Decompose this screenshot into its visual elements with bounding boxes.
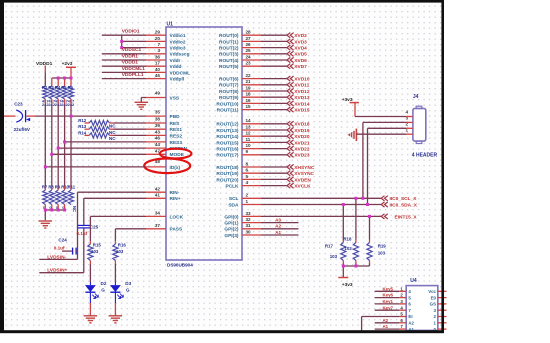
wire EINT15_X from GPI(0) <box>242 215 381 217</box>
U1 left pin numbers 35 38 39 43 46 44 47 48 42 41 34 37 <box>155 109 161 228</box>
wire XVSYNC <box>242 172 287 174</box>
svg-text:11: 11 <box>246 137 251 142</box>
net label A1 at U4 <box>383 324 389 329</box>
value NC of R11 vertical <box>72 206 77 212</box>
svg-text:XVD15: XVD15 <box>294 108 310 114</box>
svg-text:+2v3: +2v3 <box>62 61 73 67</box>
power symbol +2v3 bar <box>66 67 76 78</box>
R19 value 103 <box>378 250 386 255</box>
U1 left control pin stubs <box>146 116 166 229</box>
ground D2 <box>84 316 98 323</box>
svg-text:12: 12 <box>246 131 252 136</box>
svg-text:ROUT(15): ROUT(15) <box>216 140 239 146</box>
net label VDDSC1 <box>122 47 142 53</box>
net label IIC0_SDA_X <box>390 202 418 208</box>
resistor R4 <box>56 86 61 99</box>
svg-text:GPI(3): GPI(3) <box>224 233 239 239</box>
junction RISTEN column3 <box>57 147 60 150</box>
svg-text:4: 4 <box>405 110 408 115</box>
svg-text:NC: NC <box>109 124 116 129</box>
svg-text:18: 18 <box>246 92 252 97</box>
svg-text:DS90UB904: DS90UB904 <box>167 263 193 268</box>
svg-text:D2: D2 <box>101 281 107 286</box>
svg-text:GPI(1): GPI(1) <box>224 221 239 227</box>
svg-text:15: 15 <box>246 104 252 109</box>
svg-text:ROUT(6): ROUT(6) <box>219 77 239 83</box>
wire XVD4 <box>242 47 287 49</box>
svg-text:40: 40 <box>155 67 161 72</box>
U1 left power pin numbers 29 20 7 3 36 17 40 46 <box>155 30 161 78</box>
resistor R13 label <box>78 124 87 129</box>
chevron XVD22 <box>287 146 294 151</box>
net VDDD1 wire <box>102 65 146 67</box>
svg-text:XVDEN: XVDEN <box>294 177 311 183</box>
U4 left pin names 4 5 6 7 EI A2 A1 <box>408 289 414 332</box>
svg-text:ROUT(0): ROUT(0) <box>219 33 239 39</box>
svg-text:R13: R13 <box>78 124 87 129</box>
resistor R16 <box>113 244 118 261</box>
svg-text:A2: A2 <box>383 318 389 323</box>
wire XVD19 <box>242 129 287 131</box>
ground below R7-R10 <box>39 221 53 228</box>
svg-text:XVD6: XVD6 <box>294 58 307 64</box>
svg-text:Key6: Key6 <box>383 293 394 298</box>
svg-text:XVD4: XVD4 <box>294 46 307 52</box>
chevron XVSYNC <box>287 171 294 176</box>
wire IIC0_SCL_X <box>242 197 381 199</box>
power +2v3 label <box>62 61 73 67</box>
svg-text:XVD5: XVD5 <box>294 52 307 58</box>
wire PBD net from border through C23 <box>3 115 146 117</box>
wire XVD15 <box>242 109 287 111</box>
power VDDD1 label top-left <box>36 61 53 67</box>
ground D3 <box>109 316 123 323</box>
svg-text:RIN-: RIN- <box>170 190 180 196</box>
svg-text:ROUT(14): ROUT(14) <box>216 134 239 140</box>
chevron XVD4 <box>287 45 294 50</box>
wire XVD12 <box>242 90 287 92</box>
U4 left pin numbers 1-7 <box>400 286 403 329</box>
R16 value 103 <box>116 249 124 254</box>
wire XVD6 <box>242 59 287 61</box>
svg-text:23: 23 <box>246 61 252 66</box>
resistor R16 label <box>118 243 127 248</box>
svg-text:RES1: RES1 <box>170 127 183 133</box>
net label VDDD1 <box>122 60 139 66</box>
net label VDDR1 <box>122 53 139 59</box>
net label XVD5 <box>294 52 307 58</box>
U1 left pin names PBD RES RES1 RES2 RES3 RISTEN MODE ID(x) RIN- RIN+ LOCK PASS <box>170 114 188 233</box>
net VDDSC1 wire <box>102 53 146 55</box>
wire U4 pin 5 from bottom border <box>362 317 407 331</box>
wire MODE from column2 <box>52 153 146 155</box>
svg-text:XVSYNC: XVSYNC <box>294 171 314 177</box>
svg-text:8: 8 <box>246 161 249 166</box>
chevron XVD11 <box>287 82 294 87</box>
svg-text:R19: R19 <box>378 244 387 249</box>
svg-text:GPI(2): GPI(2) <box>224 227 239 233</box>
svg-text:4: 4 <box>246 180 249 185</box>
chevron XVD23 <box>287 152 294 157</box>
net label XHSYNC <box>294 165 315 171</box>
wire XHSYNC <box>242 166 287 168</box>
junction +2v3 bus dots <box>57 77 73 80</box>
svg-text:R15: R15 <box>93 243 102 248</box>
wire R17 to SDA <box>342 205 344 243</box>
svg-text:3: 3 <box>157 48 160 53</box>
net label XVD20 <box>294 134 310 140</box>
resistor R10 <box>62 190 67 205</box>
wire VSS <box>141 98 166 103</box>
wire IIC0_SDA_X <box>242 204 381 206</box>
wire R7-R10 bottom bus to ground <box>45 205 64 221</box>
svg-text:XVD7: XVD7 <box>294 64 307 70</box>
wire RIN+ vertical through C25 <box>84 198 146 272</box>
net label VDDCML1 <box>122 66 146 72</box>
wire RISTEN from column3 <box>58 147 146 149</box>
U1 right pin names GPI(0)-GPI(3) <box>224 214 239 239</box>
svg-text:J4: J4 <box>413 94 419 100</box>
junction bottom bus dots <box>44 209 66 212</box>
wire U4 pin Key6 row <box>375 297 407 299</box>
chevron XVD18 <box>287 121 294 126</box>
svg-text:35: 35 <box>155 109 161 114</box>
svg-text:XVD18: XVD18 <box>294 122 310 128</box>
connector J4 label <box>413 94 419 100</box>
svg-text:NC: NC <box>109 130 116 135</box>
svg-text:XVD19: XVD19 <box>294 128 310 134</box>
wire XVD3 <box>242 40 287 42</box>
svg-text:R4: R4 <box>55 85 61 90</box>
net label XVD18 <box>294 122 310 128</box>
svg-text:Vddpll: Vddpll <box>170 77 185 83</box>
wire XVD23 <box>242 154 287 156</box>
C23 value 22uf/6V <box>14 127 31 132</box>
svg-text:VDDD1: VDDD1 <box>122 60 139 66</box>
svg-text:U1: U1 <box>167 22 174 28</box>
svg-text:19: 19 <box>246 85 252 90</box>
net label XVD4 <box>294 46 307 52</box>
wire RES3 from column4 <box>65 141 146 143</box>
svg-text:0.1uf: 0.1uf <box>77 231 88 236</box>
wire XVD14 <box>242 102 287 104</box>
LED D2 label <box>101 281 107 286</box>
svg-text:13: 13 <box>246 124 252 129</box>
ground VSS <box>135 102 149 109</box>
svg-text:22uf/6V: 22uf/6V <box>14 127 31 132</box>
U1 right pin names SCL SDA <box>228 196 239 208</box>
svg-text:34: 34 <box>155 211 161 216</box>
wire ID(x) from column1 <box>45 166 146 168</box>
svg-text:44: 44 <box>155 142 161 147</box>
net label XVD10 <box>294 77 310 83</box>
U1 right pin numbers 2 1 <box>246 193 249 204</box>
U1 right pin numbers 33 32 31 30 <box>246 211 252 235</box>
svg-text:7: 7 <box>157 42 160 47</box>
svg-text:25: 25 <box>246 48 252 53</box>
svg-text:E0: E0 <box>431 295 437 300</box>
resistor R12 <box>85 120 147 125</box>
wire J4 pin1 to ground <box>356 133 413 135</box>
junction RES3 column4 <box>63 140 66 143</box>
capacitor C25 label <box>90 224 99 229</box>
svg-text:9: 9 <box>246 149 249 154</box>
resistor R13 <box>85 127 147 132</box>
svg-text:ID(x): ID(x) <box>170 165 181 171</box>
net label Key1 at U4 <box>383 299 394 304</box>
svg-text:VDDIO1: VDDIO1 <box>122 29 140 35</box>
U4 right pin stubs <box>438 291 447 329</box>
svg-text:38: 38 <box>155 117 161 122</box>
wire +2v3 bus <box>52 78 71 86</box>
svg-text:SCL: SCL <box>229 196 239 202</box>
svg-text:R18: R18 <box>343 237 352 242</box>
svg-text:PASS: PASS <box>170 227 184 233</box>
svg-text:XVCLK: XVCLK <box>294 184 311 190</box>
net label Key5 at U4 <box>383 286 394 291</box>
svg-text:R11: R11 <box>68 185 76 190</box>
power symbol +3v3 bar at J4 <box>350 103 359 117</box>
svg-text:33: 33 <box>246 211 252 216</box>
svg-text:2: 2 <box>246 193 249 198</box>
svg-text:49: 49 <box>155 91 161 96</box>
svg-text:XVD14: XVD14 <box>294 101 310 107</box>
svg-text:24: 24 <box>246 54 252 59</box>
wire LVDSIN+ <box>39 272 84 274</box>
net label XVCLK <box>294 184 311 190</box>
svg-text:VDDR1: VDDR1 <box>122 53 139 59</box>
wire vddio bus vertical <box>122 35 146 47</box>
LED D3 <box>110 282 123 303</box>
svg-text:XVD23: XVD23 <box>294 153 310 159</box>
resistor R15 label <box>93 243 102 248</box>
svg-text:VDDCML: VDDCML <box>170 70 191 76</box>
net label XVSYNC <box>294 171 314 177</box>
svg-text:5: 5 <box>246 174 249 179</box>
wire XVCLK <box>242 185 287 187</box>
R15 value 103 <box>91 249 99 254</box>
svg-text:20: 20 <box>155 36 161 41</box>
svg-text:29: 29 <box>155 30 161 35</box>
labels R2 R3 R4 R5 R6 overlapping <box>42 85 74 90</box>
net label A2 <box>275 224 281 229</box>
svg-text:C23: C23 <box>14 101 23 106</box>
net label A1 <box>275 230 281 235</box>
wire RIN- vertical <box>78 192 147 259</box>
ic U4 label <box>410 278 417 284</box>
annotation ellipse around pin 48 ID(x) <box>144 159 190 174</box>
resistor R14 <box>85 133 147 138</box>
U1 left power pin stubs <box>146 35 166 78</box>
svg-text:39: 39 <box>155 123 161 128</box>
wires below R2-R6 columns down to R7-R11 <box>45 99 71 190</box>
net label XVD12 <box>294 89 310 95</box>
chevron XVD5 <box>287 51 294 56</box>
svg-text:A0: A0 <box>275 217 281 222</box>
wire XVD10 <box>242 78 287 80</box>
chevron XVCLK <box>287 183 294 188</box>
C24 value 0.1uf <box>54 245 65 250</box>
svg-text:EINT15_X: EINT15_X <box>395 214 418 220</box>
svg-text:1: 1 <box>246 199 249 204</box>
chevron XVD14 <box>287 101 294 106</box>
net label Key7 at U4 <box>383 305 394 310</box>
U1 right pin numbers ROUT18-20 PCLK <box>246 161 249 185</box>
chevron XVD10 <box>287 76 294 81</box>
svg-text:XVD12: XVD12 <box>294 89 310 95</box>
resistor R6 <box>68 86 73 99</box>
chevron XVDEN <box>287 177 294 182</box>
svg-text:6: 6 <box>246 168 249 173</box>
svg-text:27: 27 <box>246 36 252 41</box>
svg-text:28: 28 <box>246 30 252 35</box>
svg-text:G: G <box>101 287 105 292</box>
border frame <box>0 0 444 333</box>
svg-text:36: 36 <box>155 54 161 59</box>
chevron XVD6 <box>287 57 294 62</box>
svg-text:41: 41 <box>155 193 161 198</box>
svg-text:EI: EI <box>408 314 412 319</box>
svg-text:ROUT(19): ROUT(19) <box>216 171 239 177</box>
net label XVD13 <box>294 95 310 101</box>
U1 pin 49 number <box>155 91 161 96</box>
wire A0 GPI(1) <box>242 222 299 224</box>
U1 right pin names ROUT0-5 <box>219 33 239 70</box>
svg-text:ROUT(10): ROUT(10) <box>216 101 239 107</box>
svg-text:14: 14 <box>246 118 252 123</box>
svg-text:10: 10 <box>246 143 252 148</box>
connector J4 body <box>413 106 426 143</box>
D3 value G <box>126 287 130 292</box>
wire XVD5 <box>242 53 287 55</box>
resistor R5 <box>62 86 67 99</box>
svg-text:31: 31 <box>246 223 252 228</box>
svg-text:RES: RES <box>170 121 181 127</box>
wire R19 to EINT15 <box>369 216 371 242</box>
junction SDA pin2 <box>366 203 369 206</box>
connector J4 name 4 HEADER <box>412 152 438 158</box>
net VDDIO1 wire <box>102 34 146 36</box>
chevron XVD13 <box>287 95 294 100</box>
net VDDR1 wire <box>102 59 146 61</box>
net label XVD23 <box>294 153 310 159</box>
net label XVD11 <box>294 83 309 89</box>
svg-text:ROUT(3): ROUT(3) <box>219 52 239 58</box>
resistor R15 <box>88 244 93 261</box>
ic U4 body <box>406 286 438 331</box>
junction vddio3 <box>120 46 123 49</box>
resistor R19 <box>367 243 372 261</box>
wire U4 pin Key7 row <box>375 309 407 311</box>
svg-text:RES3: RES3 <box>170 140 183 146</box>
svg-text:GPI(0): GPI(0) <box>224 214 239 220</box>
chevron XVD12 <box>287 88 294 93</box>
wire XVD2 <box>242 34 287 36</box>
svg-text:RES2: RES2 <box>170 133 183 139</box>
wire XVD20 <box>242 135 287 137</box>
svg-text:IIC0_SDA_X: IIC0_SDA_X <box>390 202 418 208</box>
svg-text:D3: D3 <box>125 281 131 286</box>
wire LVDSIN- <box>39 258 77 260</box>
net label Key6 at U4 <box>383 293 394 298</box>
wire VDDD1 to R2 <box>44 66 46 87</box>
svg-text:46: 46 <box>155 73 161 78</box>
svg-text:XHSYNC: XHSYNC <box>294 165 315 171</box>
junction SDA R17 <box>342 203 345 206</box>
svg-text:RIN+: RIN+ <box>170 196 181 202</box>
junction MODE column2 <box>50 153 53 156</box>
net label XVD15 <box>294 108 310 114</box>
wire J4 pin3 to SCL <box>363 122 413 198</box>
chevron XVD7 <box>287 64 294 69</box>
J4 pin numbers 4 3 2 1 <box>405 110 408 133</box>
svg-text:XVD13: XVD13 <box>294 95 310 101</box>
chevron XVD20 <box>287 134 294 139</box>
svg-text:4 HEADER: 4 HEADER <box>412 152 438 158</box>
value NC of R14 <box>109 136 116 141</box>
net label XVDEN <box>294 177 311 183</box>
svg-text:32: 32 <box>246 217 252 222</box>
svg-text:Vddd: Vddd <box>170 64 182 70</box>
svg-text:R17: R17 <box>325 244 334 249</box>
resistor R19 label <box>378 244 387 249</box>
svg-text:ROUT(1): ROUT(1) <box>219 39 239 45</box>
svg-text:42: 42 <box>155 186 161 191</box>
capacitor C24 <box>62 248 78 255</box>
wire XVD22 <box>242 148 287 150</box>
U1 right pin names ROUT6-11 <box>216 77 239 114</box>
resistor R12 label <box>78 118 87 123</box>
wire U4 pin Key1 row <box>375 303 407 305</box>
net label EINT15_X <box>395 214 418 220</box>
svg-text:46: 46 <box>155 136 161 141</box>
svg-text:XVD21: XVD21 <box>294 140 310 146</box>
svg-text:17: 17 <box>155 61 161 66</box>
resistor R18 <box>353 243 358 261</box>
resistor R14 label <box>78 130 87 135</box>
power +3v3 at J4 <box>342 97 353 103</box>
wire A1 GPI(3) <box>242 234 299 236</box>
resistor R3 <box>49 86 54 99</box>
svg-text:SDA: SDA <box>228 202 239 208</box>
svg-text:NC: NC <box>72 206 77 212</box>
svg-text:ROUT(12): ROUT(12) <box>216 122 239 128</box>
wire PASS to R16 <box>115 229 146 244</box>
op-amp U1 deserializer DS90UB904 box <box>166 22 242 261</box>
svg-text:R6: R6 <box>68 85 74 90</box>
svg-text:Vddio1: Vddio1 <box>170 33 186 39</box>
R17 value 103 <box>330 254 338 259</box>
net label XVD22 <box>294 147 310 153</box>
svg-text:+3v3: +3v3 <box>342 282 353 288</box>
svg-text:Vcc: Vcc <box>428 289 436 294</box>
svg-text:R16: R16 <box>118 243 127 248</box>
svg-text:A1: A1 <box>383 324 389 329</box>
svg-text:Key7: Key7 <box>383 305 394 310</box>
svg-text:XVD10: XVD10 <box>294 77 310 83</box>
chevron XHSYNC <box>287 164 294 169</box>
svg-text:103: 103 <box>344 246 352 251</box>
U1 right pin names ROUT12-17 <box>216 122 239 159</box>
value NC of R13 <box>109 130 116 135</box>
svg-text:ROUT(4): ROUT(4) <box>219 58 239 64</box>
junction SCL R18 <box>354 197 357 200</box>
wire D3 to ground <box>114 303 116 316</box>
wire U4 pin A2 row <box>375 322 407 324</box>
resistor R17 <box>341 243 346 261</box>
resistor R17 label <box>325 244 334 249</box>
svg-text:16: 16 <box>246 98 252 103</box>
